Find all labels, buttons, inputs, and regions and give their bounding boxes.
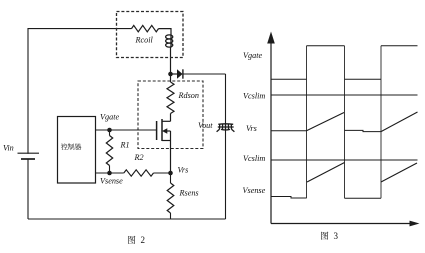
svg-text:Vsense: Vsense [100,177,123,186]
svg-text:Vsense: Vsense [243,186,266,195]
svg-text:Vcslim: Vcslim [243,154,265,163]
svg-text:Vgate: Vgate [243,51,262,60]
svg-text:Rdson: Rdson [178,91,199,100]
svg-text:Vout: Vout [198,121,213,130]
svg-text:Vcslim: Vcslim [243,92,265,101]
svg-text:2: 2 [141,235,146,245]
svg-text:Vin: Vin [3,144,14,153]
svg-text:Vrs: Vrs [178,166,189,175]
svg-text:R1: R1 [120,140,130,149]
svg-text:3: 3 [334,231,339,241]
svg-text:Vgate: Vgate [100,112,119,121]
svg-text:R2: R2 [134,153,144,162]
svg-text:Vrs: Vrs [246,124,257,133]
svg-text:Rcoil: Rcoil [135,36,154,45]
svg-text:Rsens: Rsens [179,189,199,198]
